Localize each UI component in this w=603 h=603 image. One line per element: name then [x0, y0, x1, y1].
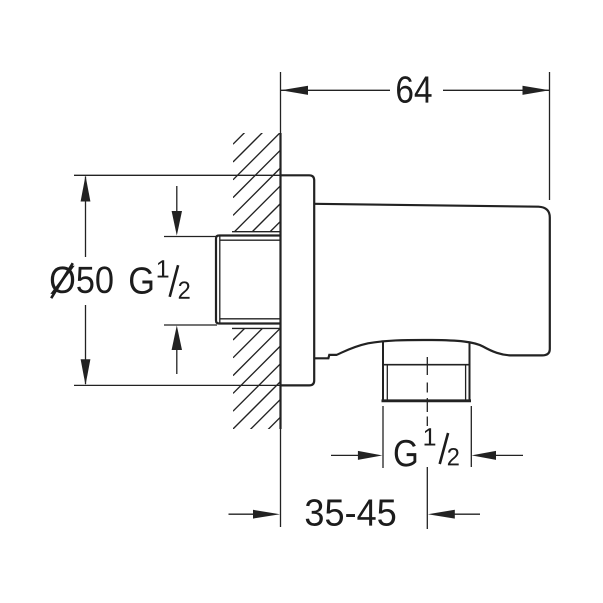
outlet stub right edge [469, 342, 471, 400]
outlet label fraction slash [440, 433, 448, 464]
dimension 3545 text [306, 499, 396, 526]
dimension D50 line [85, 177, 87, 258]
inlet thread relief vertical [219, 237, 221, 323]
outlet centerline dash-dot [426, 357, 428, 529]
dimension D50 text [50, 266, 112, 294]
inlet thread relief bottom [220, 318, 281, 320]
dimension 64 arrowhead left [281, 86, 308, 95]
dimension D50 boundary line bottom [74, 384, 281, 386]
outlet G12 extension line left [382, 406, 384, 468]
outlet label G text [395, 440, 417, 467]
outlet G12 dimension arrow left [331, 454, 358, 456]
dimension 3545 arrowhead left [253, 510, 280, 519]
dimension D50 boundary line top [74, 174, 281, 176]
dimension 64 extension line right [549, 72, 551, 200]
dimension 3545 arrowhead right [428, 510, 455, 519]
escutcheon flange [281, 175, 315, 385]
dimension 64 arrowhead right [523, 86, 550, 95]
outlet stub thread relief left [386, 365, 388, 400]
dimension D50 arrowhead bottom [81, 359, 91, 385]
thread label fraction denominator left [179, 281, 190, 298]
thread size arrow down [176, 186, 178, 213]
inlet thread relief top [220, 239, 281, 241]
wall hole upper edge [232, 231, 281, 233]
outlet G12 dimension arrow right [496, 454, 523, 456]
thread label G text left [130, 267, 152, 294]
dimension 64 extension line left [280, 72, 282, 133]
body outline [314, 204, 550, 358]
thread size arrow up [176, 348, 178, 374]
dimension 3545 line right [452, 513, 480, 515]
inlet thread connector body [216, 236, 281, 324]
outlet stub bottom edge [382, 399, 472, 402]
wall hatching [233, 97, 281, 465]
thread size boundary line upper [164, 236, 216, 238]
outlet label fraction denominator [448, 448, 459, 465]
dimension 64 line [281, 89, 390, 91]
outlet stub shoulder [383, 364, 470, 366]
dimension 3545 line left [229, 513, 257, 515]
outlet stub left edge [382, 342, 384, 400]
thread label fraction numerator left [158, 260, 169, 277]
outlet label fraction numerator [425, 428, 436, 445]
outlet G12 extension line right [470, 406, 472, 467]
wall hole lower edge [232, 327, 281, 329]
dimension D50 arrowhead top [81, 176, 91, 202]
wall face extension line lower [280, 429, 282, 527]
outlet stub thread relief right [465, 365, 467, 400]
wall face line [279, 133, 281, 429]
thread size boundary line lower [164, 324, 217, 326]
diameter symbol slash stroke [51, 263, 73, 298]
dimension 64 text [397, 76, 432, 103]
thread label fraction slash left [170, 265, 178, 297]
